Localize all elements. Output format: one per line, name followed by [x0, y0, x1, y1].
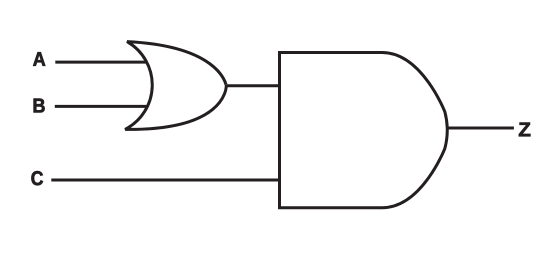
- wire input B: [55, 105, 148, 108]
- label A: [33, 52, 45, 66]
- and-gate U2: [280, 53, 448, 208]
- or-gate U1: [125, 42, 226, 130]
- wire output Z: [447, 127, 514, 130]
- label C: [31, 171, 43, 185]
- label Z: [519, 123, 531, 137]
- wire input A: [55, 61, 147, 64]
- wire or-output to and-input: [225, 84, 281, 87]
- wire input C: [51, 179, 281, 182]
- label B: [34, 99, 45, 113]
